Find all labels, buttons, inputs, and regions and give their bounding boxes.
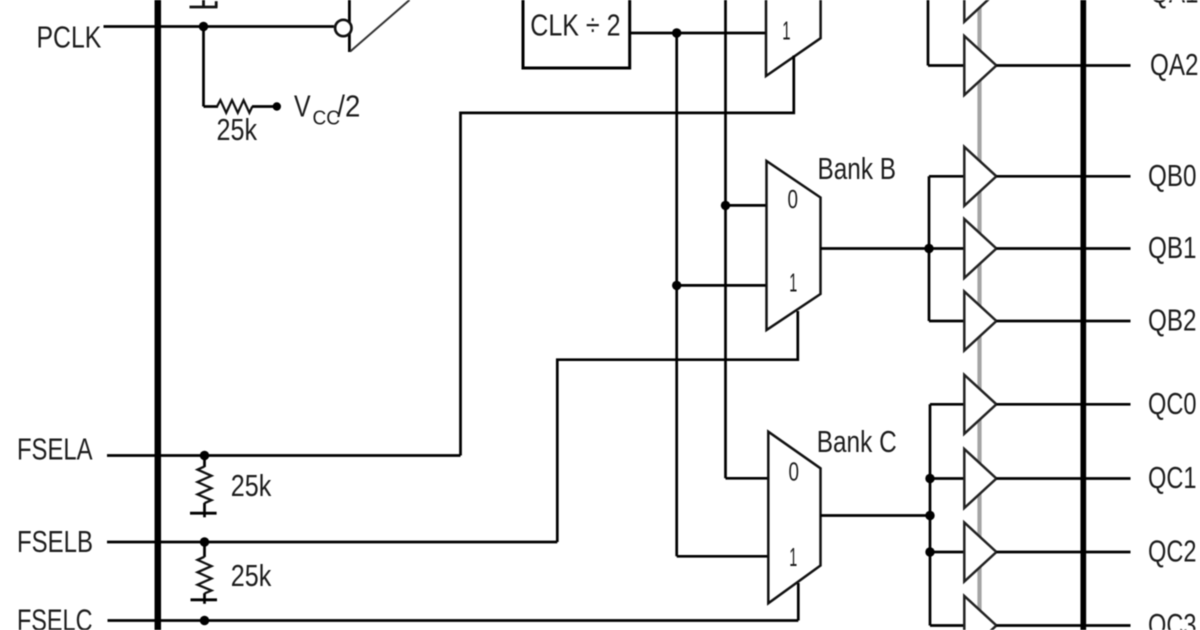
wire bank B output branch xyxy=(928,176,931,321)
buffer C1 xyxy=(964,449,996,508)
resistor R3 25k (FSELB pulldown) xyxy=(198,557,212,594)
wire PCLK input xyxy=(104,25,334,28)
svg-text:QC2: QC2 xyxy=(1148,534,1197,569)
node FSELA junction xyxy=(200,451,209,460)
svg-text:0: 0 xyxy=(789,457,800,487)
device right boundary (thick) xyxy=(1080,0,1086,630)
inverter bubble on PCLK path xyxy=(335,20,351,36)
wire mux B input 1 xyxy=(677,284,767,287)
wire FSELB pulldown stub xyxy=(203,542,206,557)
wire QC0 output xyxy=(996,403,1130,406)
svg-text:QB2: QB2 xyxy=(1148,303,1197,338)
gray internal bus line xyxy=(977,0,981,630)
node mux B input 0 junction xyxy=(721,201,730,210)
svg-text:CC: CC xyxy=(313,107,341,130)
wire FSELA pulldown stub xyxy=(203,456,206,468)
svg-text:0: 0 xyxy=(788,184,799,214)
mux U2 Bank A (cropped top) xyxy=(766,0,821,76)
node bank C entry junction xyxy=(925,511,934,520)
wire mux B output xyxy=(821,247,966,250)
svg-text:QB1: QB1 xyxy=(1148,230,1197,265)
node bank B branch junction xyxy=(924,244,933,253)
switch arm (cropped) xyxy=(350,0,409,52)
svg-text:25k: 25k xyxy=(231,558,272,593)
wire mux B input 0 xyxy=(726,204,767,207)
wire bank A output branch (cropped top) xyxy=(927,0,930,66)
svg-text:1: 1 xyxy=(789,542,797,572)
wire switch contact vertical xyxy=(348,0,351,52)
svg-text:FSELB: FSELB xyxy=(17,524,93,559)
svg-text:25k: 25k xyxy=(217,112,258,147)
svg-text:PCLK: PCLK xyxy=(37,20,102,55)
buffer C2 xyxy=(964,523,996,582)
wire mux A select xyxy=(461,56,794,456)
node divided-clock junction xyxy=(672,28,681,37)
wire QC2 buffer input xyxy=(930,551,966,554)
buffer C3 xyxy=(964,596,996,630)
wire CLK÷2 output to mux A input 1 xyxy=(630,32,766,35)
svg-text:Bank B: Bank B xyxy=(818,151,897,186)
svg-text:CLK ÷ 2: CLK ÷ 2 xyxy=(530,8,620,43)
svg-text:QC3: QC3 xyxy=(1148,607,1197,630)
wire QB0 buffer input xyxy=(929,175,966,178)
wire FSELA input xyxy=(107,454,461,457)
svg-text:FSELC: FSELC xyxy=(17,603,93,630)
node QC1 branch junction xyxy=(925,474,934,483)
wire QC1 output xyxy=(996,477,1130,480)
wire bank C output branch xyxy=(929,404,932,625)
device left boundary (thick) xyxy=(155,0,162,630)
ground (FSELA) xyxy=(190,512,217,515)
svg-text:1: 1 xyxy=(789,268,797,298)
wire R2 to ground xyxy=(203,503,206,517)
divider U1 CLK÷2 box (cropped top) xyxy=(523,0,630,68)
buffer A2 xyxy=(964,36,996,95)
wire QB2 output xyxy=(996,320,1130,323)
svg-text:25k: 25k xyxy=(231,468,272,503)
mux U3 Bank B xyxy=(767,161,821,330)
wire mux C output xyxy=(821,514,931,517)
wire QC3 buffer input xyxy=(930,624,966,627)
wire R3 to ground xyxy=(203,593,206,604)
node PCLK junction xyxy=(199,22,208,31)
svg-text:1: 1 xyxy=(782,16,790,46)
wire mux C input 0 xyxy=(726,477,769,480)
node QC2 branch junction xyxy=(925,547,934,556)
wire QA2 output xyxy=(996,64,1130,67)
svg-text:Bank C: Bank C xyxy=(817,424,897,459)
node Vcc/2 terminal xyxy=(273,102,281,110)
buffer C0 xyxy=(964,375,996,434)
wire QB0 output xyxy=(996,175,1130,178)
svg-text:V: V xyxy=(294,89,311,124)
node FSELB junction xyxy=(200,537,209,546)
mux U4 Bank C xyxy=(768,432,820,604)
svg-text:QA1: QA1 xyxy=(1150,0,1199,9)
buffer A1 (cropped top) xyxy=(964,0,996,22)
node mux B input 1 junction xyxy=(672,281,681,290)
buffer B2 xyxy=(964,292,996,351)
wire PCLK drop to bias resistor xyxy=(202,27,205,107)
buffer B0 xyxy=(964,147,996,206)
svg-text:/2: /2 xyxy=(337,89,360,124)
wire QB2 buffer input xyxy=(929,320,966,323)
wire mux B select xyxy=(557,311,798,542)
svg-text:QA2: QA2 xyxy=(1150,47,1199,82)
svg-text:QB0: QB0 xyxy=(1148,158,1197,193)
wire QC0 buffer input xyxy=(930,403,966,406)
wire reference clock vertical bus (cropped top) xyxy=(724,0,727,478)
resistor R2 25k (FSELA pulldown) xyxy=(198,466,212,503)
wire QA2 buffer input xyxy=(928,64,966,67)
svg-text:QC1: QC1 xyxy=(1148,460,1197,495)
wire mux C select xyxy=(797,583,800,621)
wire QB1 output xyxy=(996,247,1130,250)
ground (FSELB) xyxy=(191,598,218,601)
svg-text:FSELA: FSELA xyxy=(17,431,93,466)
svg-text:QC0: QC0 xyxy=(1148,386,1197,421)
resistor R1 25k (bias to Vcc/2) xyxy=(217,100,252,113)
wire QC3 output xyxy=(996,624,1130,627)
node FSELC junction xyxy=(200,616,209,625)
wire resistor to node xyxy=(252,105,274,108)
wire mux C input 1 xyxy=(677,555,769,558)
wire resistor feed xyxy=(204,105,219,108)
wire QC2 output xyxy=(996,551,1130,554)
wire FSELC input xyxy=(108,619,799,622)
ground (cropped, top) xyxy=(190,0,218,7)
wire QC1 buffer input xyxy=(930,477,966,480)
wire divided clock vertical bus xyxy=(675,33,678,556)
buffer B1 xyxy=(964,219,996,278)
wire FSELB input xyxy=(107,541,557,544)
